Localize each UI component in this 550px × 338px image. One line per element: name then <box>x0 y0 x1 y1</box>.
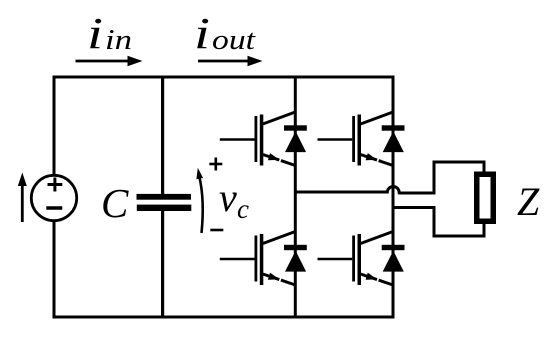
current source direction arrow <box>18 173 27 223</box>
wire: bottom bus <box>53 316 395 319</box>
resistor Z (load) <box>477 174 494 221</box>
current arrow i_out <box>198 56 263 66</box>
wire: right leg rail <box>392 76 395 319</box>
diode D1 (upper left) <box>284 125 307 152</box>
current source I1 <box>31 175 76 220</box>
svg-text:in: in <box>105 25 132 56</box>
label v_c minus sign <box>210 229 223 232</box>
transistor Q2 (IGBT, upper right) <box>318 112 394 166</box>
label v_c plus sign <box>209 158 222 171</box>
wire: capacitor branch upper <box>161 76 164 197</box>
wire: source branch upper <box>53 76 56 177</box>
wire: top bus <box>53 76 395 79</box>
current arrow i_in <box>76 56 143 66</box>
svg-text:i: i <box>194 9 210 58</box>
wire: right-leg midpoint to load bottom <box>393 208 484 237</box>
svg-text:v: v <box>219 175 237 220</box>
svg-text:C: C <box>101 180 129 226</box>
diode D3 (lower left) <box>284 245 307 272</box>
diode D2 (upper right) <box>382 125 405 152</box>
svg-text:i: i <box>87 9 103 58</box>
transistor Q1 (IGBT, upper left) <box>220 112 296 166</box>
wire: capacitor branch lower <box>161 209 164 319</box>
transistor Q3 (IGBT, lower left) <box>220 232 296 286</box>
label i_in <box>87 9 132 58</box>
capacitor C <box>137 194 192 211</box>
wire: source branch lower <box>53 220 56 319</box>
diode D4 (lower right) <box>382 245 405 272</box>
label v_c <box>219 175 249 224</box>
annotation arrow v_c <box>194 167 203 233</box>
svg-text:c: c <box>237 194 249 224</box>
wire: left-leg midpoint to load top (with crossover hop) <box>295 162 484 193</box>
wire: left leg rail <box>294 76 297 319</box>
svg-text:out: out <box>212 25 256 56</box>
transistor Q4 (IGBT, lower right) <box>318 232 394 286</box>
label i_out <box>194 9 256 58</box>
svg-text:Z: Z <box>517 179 540 224</box>
